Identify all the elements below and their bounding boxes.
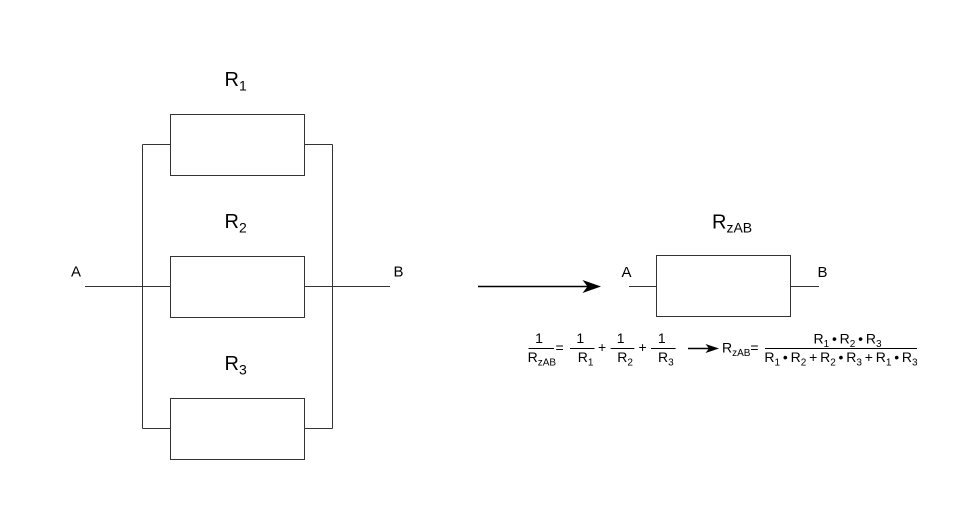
wire R3 right stub	[305, 428, 333, 430]
svg-text:1: 1	[617, 330, 625, 346]
formula fraction 1/R3	[651, 330, 676, 369]
formula fraction 1/R1	[570, 330, 606, 369]
svg-text:+: +	[598, 339, 606, 355]
resistor R1	[171, 115, 305, 176]
resistor RzAB (equivalent)	[657, 256, 791, 317]
arrow (equivalence)	[478, 280, 601, 293]
svg-text:=: =	[556, 339, 564, 355]
wire B lead	[305, 286, 391, 288]
svg-text:B: B	[818, 264, 828, 281]
svg-text:1: 1	[535, 330, 543, 346]
arrow (implies)	[688, 344, 719, 353]
formula fraction 1/RzAB	[528, 330, 564, 369]
wire A stub (equivalent)	[629, 286, 658, 288]
wire R3 left stub	[143, 428, 171, 430]
wire R1 right stub	[305, 144, 333, 146]
svg-text:1: 1	[658, 330, 666, 346]
formula fraction 1/R2	[611, 330, 647, 369]
formula big fraction bar	[765, 348, 917, 350]
wire A lead	[85, 286, 171, 288]
svg-text:B: B	[394, 264, 404, 281]
svg-text:A: A	[622, 264, 632, 281]
resistor R2	[171, 257, 305, 318]
svg-text:=: =	[750, 339, 758, 355]
wire B stub (equivalent)	[791, 286, 820, 288]
wire left rail	[142, 145, 144, 429]
resistor R3	[171, 399, 305, 460]
svg-text:A: A	[71, 264, 81, 281]
svg-text:1: 1	[576, 330, 584, 346]
wire right rail	[332, 145, 334, 429]
svg-text:+: +	[639, 339, 647, 355]
wire R1 left stub	[143, 144, 171, 146]
